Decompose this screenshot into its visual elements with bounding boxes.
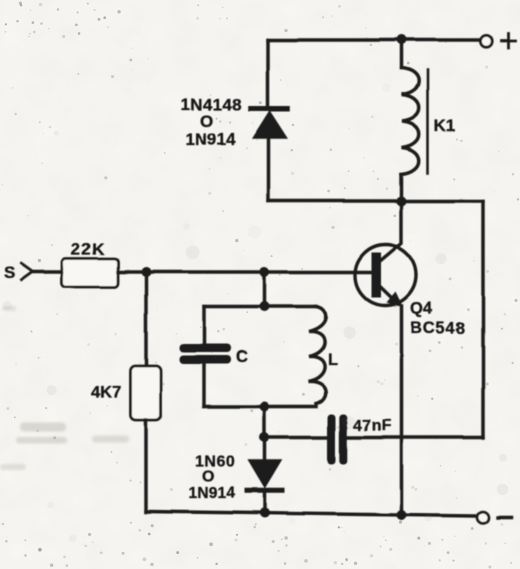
capacitor C2 47nF left plate <box>328 414 336 464</box>
node base/4K7 <box>141 267 151 277</box>
wire diode D2 to bottom rail <box>263 493 266 515</box>
wire tank node to 47nF node <box>263 407 266 438</box>
wire cap C lower lead <box>202 364 205 407</box>
svg-text:K1: K1 <box>434 116 456 135</box>
svg-text:S: S <box>4 264 15 283</box>
transistor Q4 base bar <box>372 253 382 298</box>
wire left flyback branch lower <box>266 138 269 202</box>
capacitor C bottom plate <box>180 356 231 365</box>
wire 47nF right plate to right vertical <box>348 436 484 439</box>
inductor L winding <box>309 307 326 404</box>
svg-text:L: L <box>328 351 338 369</box>
resistor R2 4K7 body <box>131 366 162 421</box>
relay K1 core bar <box>426 70 429 173</box>
node tank top <box>260 302 270 312</box>
node tank bottom <box>260 402 270 412</box>
node emitter bottom rail <box>397 510 407 520</box>
node collector-rail/coil bottom <box>397 196 407 206</box>
terminal positive circle <box>480 35 492 47</box>
svg-text:O: O <box>200 112 213 131</box>
node diode bottom rail <box>260 508 270 518</box>
diode D2 1N60/1N914 cathode bar <box>247 488 282 493</box>
wire tank bottom <box>204 405 316 408</box>
wire input to resistor <box>33 270 62 273</box>
plus sign <box>502 34 516 48</box>
node collector-rail/coil top <box>397 35 407 45</box>
svg-text:47nF: 47nF <box>354 418 392 435</box>
minus sign <box>498 516 512 519</box>
wire collector lead into transistor <box>380 201 402 262</box>
wire node to diode D2 <box>263 438 266 462</box>
terminal negative circle <box>477 512 489 524</box>
wire left flyback branch upper <box>266 40 269 107</box>
node 47nF tap <box>260 433 270 443</box>
wire emitter vertical <box>400 306 403 516</box>
svg-text:1N914: 1N914 <box>186 130 237 149</box>
wire tank top <box>204 305 316 308</box>
wire collector rail <box>268 199 483 202</box>
wire cap C upper lead <box>202 307 205 345</box>
diode D2 1N60/1N914 triangle <box>249 461 281 488</box>
transistor Q4 emitter lead <box>381 287 399 304</box>
svg-text:Q4: Q4 <box>411 300 434 318</box>
wire right vertical from collector node <box>481 201 484 438</box>
wire bottom negative rail <box>146 512 474 517</box>
wire top positive rail <box>268 38 478 41</box>
wire tank top drop <box>263 272 266 307</box>
wire relay bottom stub <box>400 174 403 201</box>
node junction dots <box>141 35 407 520</box>
wire 4K7 to bottom rail <box>144 421 147 513</box>
diode D1 1N4148/1N914 triangle <box>253 112 287 139</box>
svg-text:4K7: 4K7 <box>91 384 121 402</box>
diode D1 1N4148/1N914 cathode bar <box>251 106 288 112</box>
wire node to 47nF left plate <box>265 436 328 439</box>
transistor Q4 emitter arrow <box>387 292 404 308</box>
wire down to 4K7 <box>144 272 147 366</box>
svg-text:1N914: 1N914 <box>189 485 236 502</box>
capacitor C2 47nF right plate <box>339 414 347 464</box>
ghost print smudges (decorative) <box>0 306 129 470</box>
input chevron S <box>22 264 34 281</box>
wire base <box>118 270 372 273</box>
wire relay top stub <box>400 40 403 68</box>
transistor Q4 circle <box>355 245 416 306</box>
node base/tank <box>260 267 270 277</box>
svg-text:BC548: BC548 <box>411 320 466 338</box>
relay coil K1 winding <box>402 68 419 174</box>
resistor R1 22K body <box>62 259 118 288</box>
capacitor C top plate <box>180 344 231 353</box>
svg-text:O: O <box>202 469 214 486</box>
svg-text:C: C <box>236 348 248 366</box>
